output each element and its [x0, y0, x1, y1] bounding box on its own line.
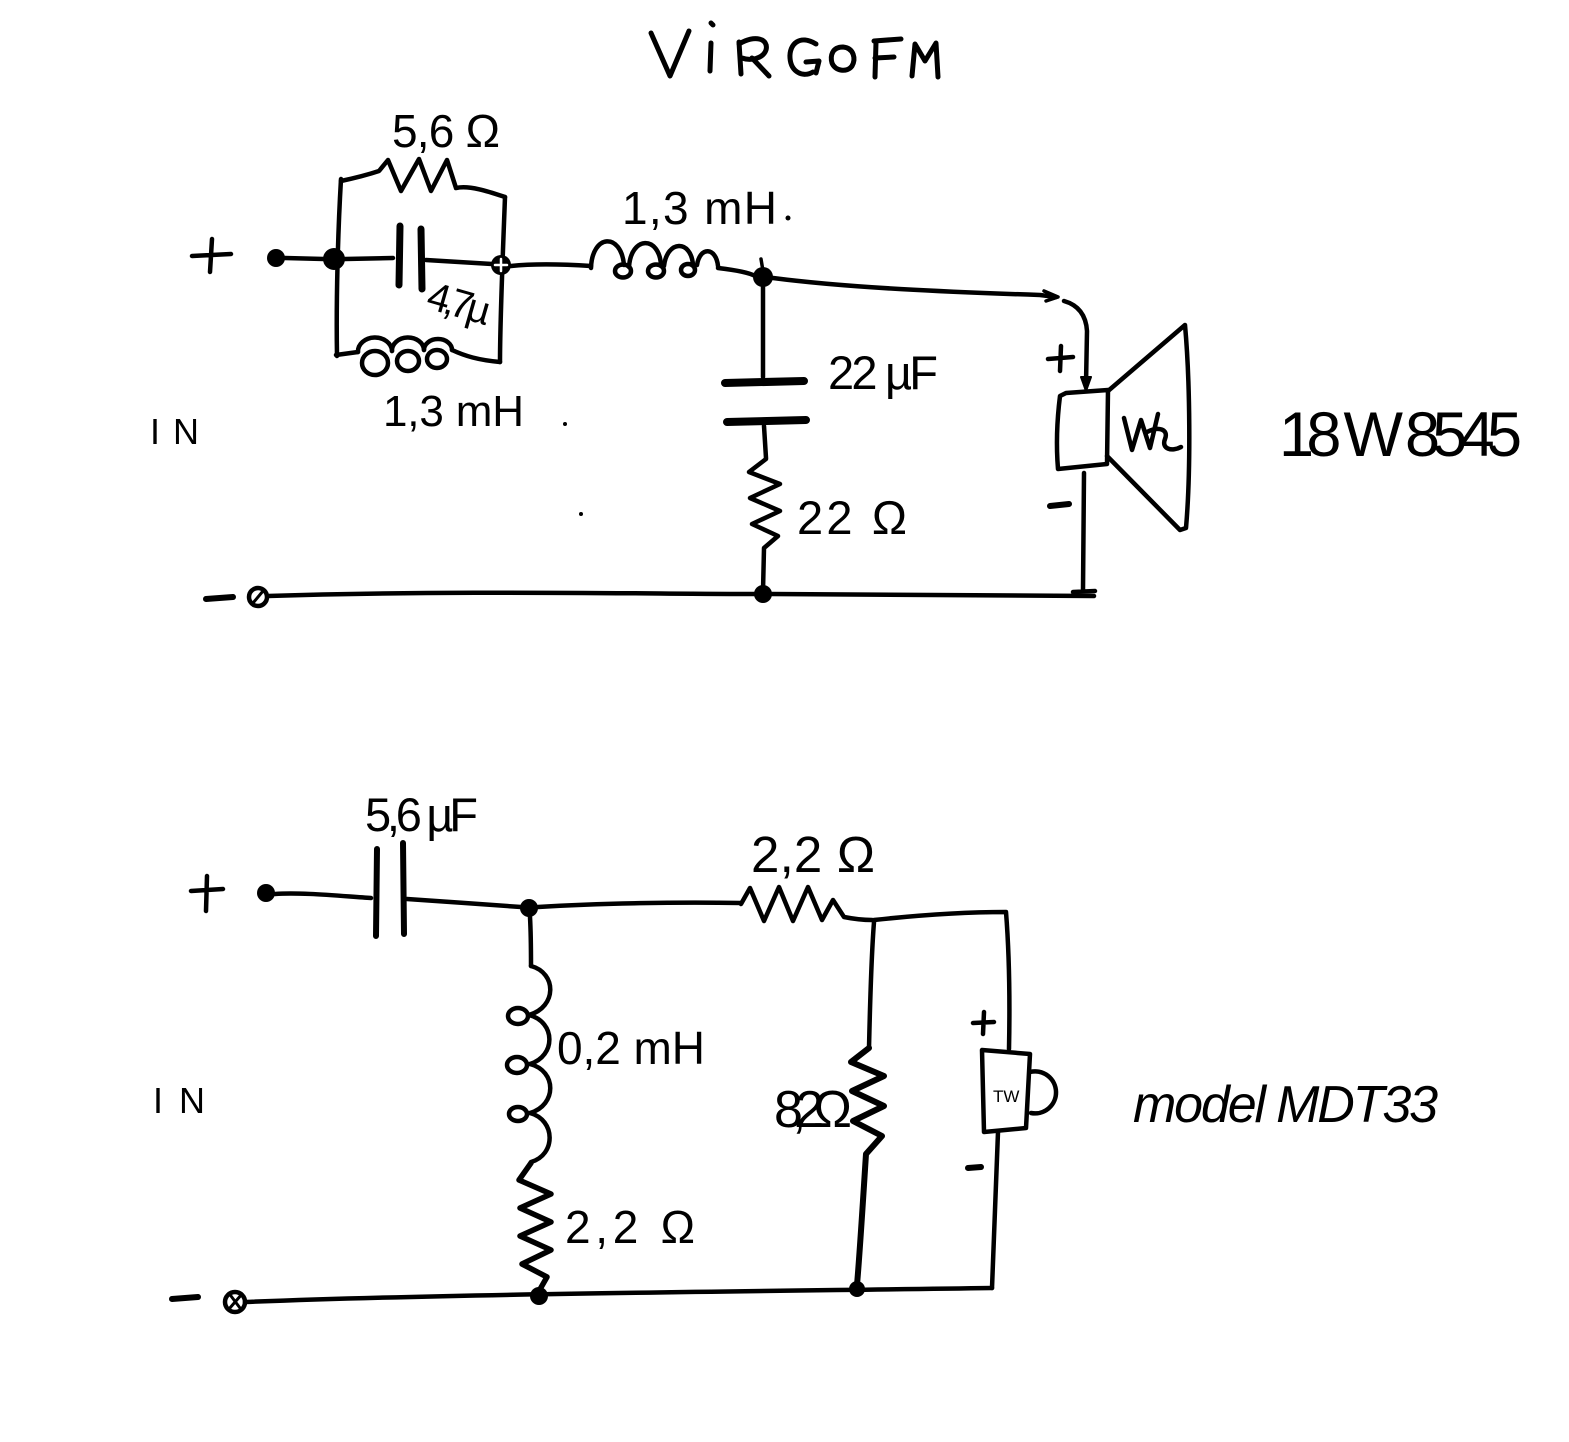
svg-text:0,2 mH: 0,2 mH [557, 1022, 705, 1074]
resistor 5.6Ω (top branch of parallel block) [341, 159, 505, 197]
svg-text:IN: IN [153, 1080, 211, 1121]
wire junction to capacitor [345, 258, 393, 259]
node B: right junction of parallel block [491, 255, 511, 275]
node E: junction after capacitor [520, 899, 538, 917]
wire node E to series resistor [538, 903, 741, 907]
node: top input dot [267, 249, 285, 267]
svg-text:TW: TW [993, 1087, 1019, 1106]
capacitor 4.7µF (middle branch) [399, 226, 422, 289]
svg-text:1,3 mH: 1,3 mH [622, 182, 777, 234]
resistor 2.2Ω (shunt bottom) [519, 1163, 551, 1291]
wire tweeter bottom to rail [992, 1132, 998, 1288]
node G: bottom rail junction under 8.2Ω [849, 1281, 865, 1297]
label + (speaker plus) [1048, 346, 1073, 371]
wire speaker to bottom rail [1073, 473, 1095, 592]
svg-text:22 Ω: 22 Ω [797, 491, 907, 544]
node D: bottom rail junction [754, 585, 772, 603]
wire capacitor to node E [407, 899, 521, 907]
svg-text:1,3 mH: 1,3 mH [383, 387, 524, 436]
label − (top input minus) [206, 597, 233, 599]
svg-text:2,2 Ω: 2,2 Ω [565, 1201, 695, 1253]
wire: shunt branch node E down [530, 917, 531, 966]
label + (tweeter plus) [973, 1012, 994, 1034]
svg-text:5,6 Ω: 5,6 Ω [392, 105, 500, 157]
inductor 1.3mH (bottom branch of parallel block) [336, 337, 500, 375]
svg-text:2,2 Ω: 2,2 Ω [751, 826, 875, 883]
resistor 22Ω (shunt) [749, 459, 780, 591]
svg-text:18 W 8545: 18 W 8545 [1279, 400, 1522, 470]
wire junction F down to shunt resistor [869, 922, 874, 1048]
node A: junction at parallel block input [323, 248, 345, 270]
node H: rail junction under 2.2Ω [530, 1287, 548, 1305]
label + (top input terminal) [192, 239, 231, 272]
node: bottom input dot [257, 884, 275, 902]
svg-text:model MDT33: model MDT33 [1133, 1076, 1438, 1134]
wire curve down to speaker plus terminal [1064, 301, 1087, 384]
wire capacitor to resistor [764, 426, 766, 458]
svg-text:8,2Ω: 8,2Ω [774, 1081, 852, 1139]
label − (bottom input minus) [172, 1297, 198, 1299]
node C: junction after series inductor [753, 267, 773, 287]
tweeter model MDT33 [982, 1050, 1056, 1132]
wire capacitor to right junction [426, 260, 492, 264]
wire: parallel block left vertical [337, 179, 341, 356]
wire junction F to tweeter top [874, 912, 1009, 1049]
inductor 1.3mH (series) [591, 241, 718, 277]
svg-text:5,6 µF: 5,6 µF [365, 788, 478, 841]
svg-text:22 µF: 22 µF [828, 346, 938, 399]
label − (tweeter minus) [968, 1167, 981, 1168]
capacitor 5.6µF (series) [376, 843, 404, 936]
label − (speaker minus) [1050, 504, 1069, 506]
wire: parallel block right vertical [500, 197, 505, 362]
title VIRGOFM [651, 23, 938, 77]
wire: bottom circuit bottom rail [245, 1288, 992, 1302]
node: bottom minus terminal circle [225, 1292, 245, 1312]
node: minus terminal circle [249, 588, 267, 606]
inductor 0.2mH (shunt) [507, 966, 550, 1162]
capacitor 22µF (shunt, electrolytic bars) [725, 381, 806, 422]
wire input to capacitor [275, 893, 371, 898]
wire input to junction [285, 258, 324, 259]
speaker driver 18W8545 (woofer) [1057, 325, 1189, 530]
wire block to series inductor [511, 265, 591, 267]
stray dot [579, 512, 583, 516]
wire node C to speaker [773, 278, 1056, 297]
svg-text:4,7µ: 4,7µ [422, 274, 496, 334]
wire: top circuit bottom rail [268, 593, 1094, 596]
label + (bottom input) [191, 876, 223, 911]
wire inductor to node C [718, 268, 755, 276]
wire: shunt branch from node C down [761, 287, 766, 377]
svg-text:IN: IN [150, 411, 205, 452]
resistor 2.2Ω (series) [741, 887, 872, 921]
resistor 8.2Ω (shunt) [851, 1048, 884, 1285]
